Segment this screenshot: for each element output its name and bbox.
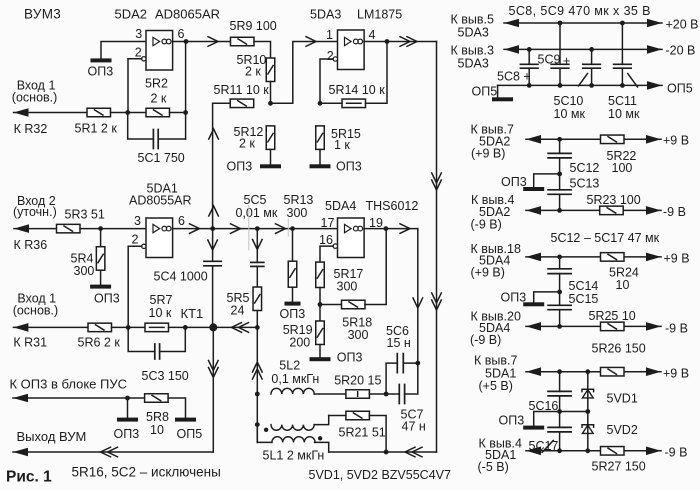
- ground ОП3 on К ОП3 wire: [117, 418, 138, 422]
- junction 5DA4 output node: [384, 226, 389, 231]
- svg-text:ОП3: ОП3: [501, 175, 527, 189]
- arrow right -9 rail 5DA1: [646, 447, 661, 456]
- wire 5DA1 pin2 to feedback rail: [128, 246, 142, 327]
- signal arrow before 5R13 node: [276, 224, 286, 234]
- resistor 5R9: [231, 37, 255, 46]
- ground ОП3 mid 5DA2 block: [523, 187, 544, 191]
- junction 5R5 bottom node: [255, 325, 260, 330]
- svg-text:2: 2: [327, 49, 334, 63]
- junction zener mid node: [585, 409, 590, 414]
- arrow right -20 rail: [647, 45, 662, 54]
- resistor 5R21: [346, 411, 370, 420]
- wire Выход ВУМ: [13, 451, 213, 453]
- svg-text:5C8, 5C9 470 мк x 35 В: 5C8, 5C9 470 мк x 35 В: [509, 4, 651, 18]
- wire 5DA3 output down rail: [436, 42, 438, 453]
- ground OP3 at 5DA2 pin 3: [91, 58, 112, 62]
- svg-text:10 мк: 10 мк: [608, 107, 640, 121]
- wire 5R20 to 5C7: [369, 393, 399, 395]
- arrow to R36: [14, 224, 29, 233]
- svg-text:(-5 В): (-5 В): [478, 460, 509, 474]
- wire 5C12 to mid node: [559, 158, 561, 190]
- junction 5C6 right node: [415, 361, 420, 366]
- svg-text:10 мк: 10 мк: [554, 107, 586, 121]
- wire 5R7 to КТ1: [169, 326, 214, 328]
- wire 5C9 branch: [559, 23, 561, 64]
- resistor 5R24: [601, 253, 625, 262]
- junction 5C9 bottom: [558, 83, 563, 88]
- wire feedback node to 5R14: [320, 102, 342, 104]
- arrow left +9 rail 5DA2: [526, 135, 541, 144]
- junction mid node 5C12-5C13: [557, 172, 562, 177]
- junction 5C17 bottom: [557, 448, 562, 453]
- svg-text:4: 4: [369, 28, 376, 42]
- svg-text:5L2: 5L2: [279, 359, 300, 373]
- svg-text:-9 В: -9 В: [665, 322, 688, 336]
- svg-text:-9 В: -9 В: [663, 205, 686, 219]
- ground ОП3 below 5R13: [285, 302, 301, 306]
- faint scan line near 5C5: [248, 206, 250, 250]
- svg-text:3: 3: [135, 27, 142, 41]
- wire 5R18 to output riser: [365, 229, 386, 305]
- signal arrow after 5DA2 output: [208, 37, 218, 47]
- svg-text:+9 В: +9 В: [663, 367, 689, 381]
- ground ОП3 mid 5DA4 block: [523, 302, 544, 306]
- arrow left -20 rail: [504, 45, 519, 54]
- wire 5C12 branch: [559, 139, 561, 153]
- wire 5R14 to output riser: [366, 42, 388, 104]
- double arrow left on bottom rail: [405, 447, 422, 457]
- wire 5R17 to fb node: [319, 288, 321, 305]
- svg-text:300: 300: [348, 328, 369, 342]
- double arrow on Выход wire: [101, 447, 118, 457]
- resistor 5R2: [146, 108, 170, 117]
- svg-text:ОП3: ОП3: [227, 160, 253, 174]
- svg-text:-20 В: -20 В: [666, 44, 696, 58]
- wire input1b to 5R6: [13, 326, 88, 328]
- svg-text:К R32: К R32: [14, 122, 48, 136]
- svg-text:5VD2: 5VD2: [607, 423, 638, 437]
- svg-text:5DA3: 5DA3: [458, 57, 489, 71]
- svg-text:2 к: 2 к: [151, 92, 167, 106]
- wire 5C5 stem: [256, 229, 258, 263]
- polarity dot 5L1 lower: [318, 436, 322, 440]
- faint scan line near 5R13: [287, 219, 289, 236]
- arrow left +20 rail: [504, 19, 519, 28]
- resistor 5R11: [230, 99, 254, 108]
- svg-text:300: 300: [287, 206, 308, 220]
- wire 5R6 to fb node: [112, 326, 146, 328]
- resistor 5R14: [342, 99, 366, 108]
- svg-text:THS6012: THS6012: [366, 199, 419, 213]
- wire -9 rail 5DA1: [526, 450, 661, 452]
- junction 5C8 bottom: [527, 83, 532, 88]
- capacitor 5C6: [397, 354, 403, 373]
- wire 5C14 to mid node: [559, 274, 561, 306]
- node КТ1: [209, 323, 217, 331]
- capacitor 5C17: [548, 427, 571, 432]
- wire +9 rail 5DA4: [526, 256, 661, 258]
- resistor 5R15: [316, 126, 325, 149]
- arrow right +20 rail: [647, 19, 662, 28]
- svg-text:1 к: 1 к: [334, 138, 350, 152]
- svg-text:5DA3: 5DA3: [458, 26, 489, 40]
- svg-text:5R3 51: 5R3 51: [65, 208, 105, 222]
- svg-text:5C12 – 5C17 47 мк: 5C12 – 5C17 47 мк: [551, 231, 660, 245]
- junction node B: [268, 101, 273, 106]
- svg-text:10 к: 10 к: [149, 306, 172, 320]
- svg-text:5R14 10 к: 5R14 10 к: [329, 83, 386, 97]
- wire 5R11 left to feedback rail: [213, 103, 231, 228]
- junction 5L1a left node: [255, 422, 260, 427]
- wire 5R5 to КТ1 row: [256, 311, 258, 328]
- wire 5DA2 pin2 to feedback node: [128, 59, 142, 113]
- wire 5DA4 output down rail: [417, 229, 419, 364]
- svg-text:5R7: 5R7: [150, 293, 173, 307]
- junction 5C10 bottom: [589, 83, 594, 88]
- svg-text:6: 6: [178, 27, 185, 41]
- resistor 5R6: [88, 323, 112, 332]
- junction mid node 5C14-5C15: [557, 290, 562, 295]
- signal arrow into 5DA3 pin1: [306, 37, 316, 47]
- resistor 5R13: [288, 261, 297, 287]
- resistor 5R12: [266, 126, 275, 149]
- op-amp 5DA2 AD8065AR: [142, 31, 173, 71]
- arrow down below 5DA1 output node: [208, 240, 218, 250]
- junction 5DA4 feedback node: [318, 302, 323, 307]
- junction 5VD2 bottom: [585, 448, 590, 453]
- arrow up above 5DA1 output node: [209, 206, 219, 216]
- wire mid node to ОП3 (5DA1 block): [534, 412, 560, 426]
- wire 5R21 left lead: [329, 415, 346, 417]
- wire +9 rail 5DA1: [526, 371, 661, 373]
- wire -9 rail 5DA4: [526, 325, 661, 327]
- wire 5DA4 pin16 to 5R17: [320, 246, 333, 262]
- wire input 2 to 5R3: [14, 228, 57, 230]
- svg-text:5DA3: 5DA3: [310, 8, 341, 22]
- resistor 5R27: [601, 447, 625, 456]
- svg-text:К выв.5: К выв.5: [451, 13, 494, 27]
- wire mid node to ОП3 (5DA2 block): [534, 174, 560, 187]
- capacitor 5C9: [551, 64, 569, 68]
- junction 5R2 right node: [183, 110, 188, 115]
- svg-text:AD8055AR: AD8055AR: [129, 194, 192, 208]
- svg-text:К R31: К R31: [13, 335, 47, 349]
- junction -9 rail 5DA2 node: [557, 208, 562, 213]
- double arrow down on КТ1 rail: [209, 361, 219, 378]
- svg-text:5C9: 5C9: [538, 53, 561, 67]
- wire 5R8 to ОП5: [168, 398, 185, 418]
- wire 5DA1 output: [173, 228, 338, 230]
- svg-text:5C14: 5C14: [569, 279, 599, 293]
- junction 5C16 top: [557, 369, 562, 374]
- op-amp 5DA1 AD8055AR: [142, 218, 173, 258]
- svg-text:24: 24: [231, 304, 245, 318]
- junction 5C14 top: [557, 255, 562, 260]
- wire mid node to ОП3 (5DA4 block): [534, 292, 560, 302]
- svg-text:5R11 10 к: 5R11 10 к: [214, 83, 270, 97]
- wire 5R2 to output riser: [170, 112, 186, 114]
- wire 5C16 to mid node: [559, 396, 561, 428]
- wire 5L1b left: [257, 425, 272, 443]
- svg-text:Рис. 1: Рис. 1: [6, 469, 52, 486]
- svg-text:(уточн.): (уточн.): [13, 205, 57, 219]
- svg-text:47 н: 47 н: [402, 420, 426, 434]
- resistor 5R26: [601, 367, 625, 376]
- wire 5DA2 output: [173, 41, 231, 43]
- arrow right +9 rail 5DA1: [646, 367, 661, 376]
- svg-text:6: 6: [178, 214, 185, 228]
- capacitor 5C11: [614, 64, 632, 68]
- svg-text:(+9 В): (+9 В): [471, 266, 505, 280]
- wire 5DA4 rail to 5C7: [405, 363, 418, 394]
- arrow right ОП5 rail: [647, 81, 662, 90]
- ground ОП3 below 5R4: [90, 285, 111, 289]
- resistor 5R17: [316, 262, 325, 287]
- arrow left -9 rail 5DA1: [526, 447, 541, 456]
- wire node B to 5DA3 input riser: [271, 42, 338, 104]
- junction 5C12 top: [557, 137, 562, 142]
- wire 5C11 to ОП5: [621, 68, 623, 85]
- capacitor 5C4: [204, 261, 221, 266]
- junction 5DA3 output node: [385, 39, 390, 44]
- svg-text:+9 В: +9 В: [663, 134, 689, 148]
- zener diode 5VD2: [582, 425, 594, 434]
- junction 5DA1 inverting node: [126, 325, 131, 330]
- wire fb node to 5R18: [320, 304, 342, 306]
- wire 5R9 to 5R10 corner: [254, 42, 271, 59]
- svg-text:(-9 В): (-9 В): [471, 218, 502, 232]
- svg-text:5R9 100: 5R9 100: [230, 19, 277, 33]
- junction -9 rail 5DA4 node: [557, 324, 562, 329]
- resistor 5R3: [57, 224, 81, 233]
- signal arrow up on feedback rail: [209, 129, 219, 139]
- capacitor 5C7: [399, 385, 404, 404]
- capacitor 5C1: [153, 130, 158, 149]
- svg-text:5L1 2 мкГн: 5L1 2 мкГн: [263, 449, 325, 463]
- svg-text:5R25 10: 5R25 10: [589, 309, 636, 323]
- junction 5DA2 output node: [184, 39, 189, 44]
- wire 5C16 branch: [559, 372, 561, 392]
- resistor 5R18: [342, 300, 366, 309]
- wire 5R19 to ground: [319, 345, 321, 358]
- double arrow down on 5DA3 rail lower: [432, 293, 442, 310]
- wire 5C3 right branch: [160, 327, 186, 351]
- svg-text:К R36: К R36: [14, 238, 48, 252]
- svg-text:(основ.): (основ.): [12, 91, 58, 105]
- zener diode 5VD1: [582, 389, 594, 398]
- wire 5R15 to ground: [319, 149, 321, 164]
- capacitor 5C16: [548, 391, 571, 396]
- junction inverting node 5DA2: [125, 110, 130, 115]
- arrow right +9 rail 5DA2: [646, 135, 661, 144]
- svg-text:16: 16: [319, 233, 333, 247]
- wire 5C8 branch: [528, 49, 530, 64]
- arrow К ОП3: [13, 394, 28, 403]
- capacitor 5C14: [548, 269, 571, 274]
- wire КТ1 rail down: [212, 327, 214, 452]
- capacitor 5C13: [548, 190, 571, 195]
- capacitor 5C8: [520, 64, 538, 68]
- wire +20 rail: [504, 22, 662, 24]
- wire 5DA4 output: [364, 228, 418, 230]
- wire 5DA3 output: [364, 41, 436, 43]
- svg-text:5C3 150: 5C3 150: [142, 369, 189, 383]
- wire 5C14 branch: [559, 257, 561, 269]
- resistor 5R5: [253, 287, 261, 311]
- wire 5C13 to -9 rail: [559, 194, 561, 210]
- svg-text:AD8065AR: AD8065AR: [155, 7, 220, 22]
- junction 5R20 output node: [384, 392, 389, 397]
- wire 5R21 right to bottom rail: [369, 416, 386, 453]
- junction mid node 5C16-5C17: [557, 409, 562, 414]
- ground ОП5 near 5R8: [175, 418, 196, 422]
- svg-text:(основ.): (основ.): [13, 304, 59, 318]
- svg-text:17: 17: [321, 216, 335, 230]
- wire 5R10 to node B: [270, 82, 272, 104]
- wire -20 rail: [504, 48, 662, 50]
- wire 5R1 to inverting node: [111, 112, 147, 114]
- junction 5C8 top: [527, 47, 532, 52]
- wire 5C17 to -9 rail: [559, 432, 561, 451]
- wire 5C6 left branch: [386, 363, 397, 394]
- wire rail 5DA1-output down: [212, 229, 214, 262]
- wire 5C10 branch: [591, 49, 593, 64]
- svg-text:(+9 В): (+9 В): [471, 147, 505, 161]
- junction 5C9 top: [558, 21, 563, 26]
- svg-text:5C13: 5C13: [570, 177, 600, 191]
- svg-text:300: 300: [74, 264, 95, 278]
- resistor 5R4: [96, 247, 105, 271]
- svg-text:ОП3: ОП3: [88, 65, 114, 79]
- wire 5R3 to 5DA1 pin3: [80, 228, 146, 230]
- wire -9 rail 5DA2: [526, 209, 661, 211]
- wire 5C1 bottom rail right: [158, 138, 185, 140]
- svg-text:К выв.3: К выв.3: [451, 44, 494, 58]
- svg-text:КТ1: КТ1: [181, 306, 204, 321]
- arrow to R32: [14, 108, 29, 117]
- wire input 1 to 5R1: [14, 112, 88, 114]
- wire bottom rail: [329, 451, 437, 453]
- svg-text:5R1 2 к: 5R1 2 к: [75, 122, 118, 136]
- op-amp 5DA3 LM1875: [333, 30, 364, 70]
- svg-text:5R26 150: 5R26 150: [592, 342, 646, 356]
- svg-text:К выв.7: К выв.7: [474, 354, 517, 368]
- junction 5DA1 output on КТ rail: [210, 226, 215, 231]
- wire output riser of 5DA2: [185, 42, 187, 140]
- junction 5R4 node: [98, 226, 103, 231]
- svg-text:5VD1, 5VD2 BZV55C4V7: 5VD1, 5VD2 BZV55C4V7: [309, 468, 451, 482]
- resistor 5R19: [316, 321, 325, 345]
- svg-text:ОП3: ОП3: [94, 292, 120, 306]
- resistor 5R10: [266, 58, 275, 82]
- arrow right +9 rail 5DA4: [646, 253, 661, 262]
- svg-text:5R23 100: 5R23 100: [587, 193, 641, 207]
- svg-text:200: 200: [289, 335, 310, 349]
- svg-text:ВУМ3: ВУМ3: [24, 7, 61, 22]
- inductor 5L2: [271, 388, 314, 394]
- svg-text:2 к: 2 к: [239, 137, 255, 151]
- wire 5C9 to ОП5: [559, 68, 561, 85]
- resistor 5R25: [601, 322, 625, 331]
- capacitor 5C10: [583, 64, 601, 68]
- svg-text:-9 В: -9 В: [665, 446, 688, 460]
- svg-text:+: +: [563, 54, 570, 68]
- svg-text:ОП3: ОП3: [336, 160, 362, 174]
- svg-text:5C10: 5C10: [554, 94, 584, 108]
- arrow left +9 rail 5DA4: [526, 253, 541, 262]
- svg-text:5R21 51: 5R21 51: [339, 426, 386, 440]
- double arrow down on 5DA3 rail upper: [432, 173, 442, 190]
- wire КТ1 to 5R5 node: [213, 326, 257, 328]
- junction 5R7 right node: [183, 325, 188, 330]
- svg-text:5DA4: 5DA4: [325, 199, 356, 213]
- svg-text:5R8: 5R8: [146, 410, 169, 424]
- svg-text:ОП3: ОП3: [280, 307, 306, 321]
- wire К ОП3 row: [13, 397, 145, 399]
- svg-text:15 н: 15 н: [387, 336, 411, 350]
- resistor 5R20: [346, 390, 370, 399]
- svg-text:ОП3: ОП3: [114, 427, 140, 441]
- resistor 5R22: [601, 135, 625, 144]
- wire 5R12 to ground: [270, 149, 272, 164]
- resistor 5R23: [600, 206, 624, 215]
- junction bottom rail node: [384, 450, 389, 455]
- wire 5R5-node rail down: [256, 327, 258, 442]
- svg-text:100: 100: [612, 161, 633, 175]
- svg-text:2: 2: [132, 233, 139, 247]
- svg-text:5R16, 5C2 – исключены: 5R16, 5C2 – исключены: [72, 465, 221, 480]
- pointer line to 5C17: [542, 440, 553, 452]
- junction ОП3 stem node: [125, 396, 130, 401]
- svg-text:ОП5: ОП5: [177, 427, 203, 441]
- wire 5R4 to ground: [100, 270, 102, 284]
- wire 5C6 right branch: [403, 362, 418, 364]
- wire 5R19 stem: [319, 305, 321, 322]
- wire zener chain: [587, 372, 589, 451]
- arrow Выход ВУМ: [13, 448, 28, 457]
- wire ОП3 stem (К ОП3): [127, 398, 129, 418]
- arrow right -9 rail 5DA2: [646, 206, 661, 215]
- svg-text:5C8 +: 5C8 +: [497, 70, 531, 84]
- svg-text:0,01 мк: 0,01 мк: [236, 206, 278, 220]
- wire 5L1b right to bottom rail: [315, 442, 329, 452]
- inductor 5L1 lower winding: [272, 437, 315, 443]
- svg-text:5R20 15: 5R20 15: [334, 374, 381, 388]
- svg-text:ОП3: ОП3: [337, 350, 363, 364]
- resistor 5R1: [87, 108, 111, 117]
- ground ОП5 symbol: [492, 97, 513, 101]
- wire 5DA3 pin2 to feedback node: [320, 59, 333, 103]
- junction 5C11 top: [620, 21, 625, 26]
- signal arrow before 5C5 node: [231, 224, 241, 234]
- double arrow left of 5R5 node: [232, 323, 249, 333]
- signal arrow after 5DA4: [400, 224, 410, 234]
- junction 5R13 node: [290, 226, 295, 231]
- polarity dot 5L1 upper: [264, 428, 268, 432]
- wire 5L1a right to 5R21 riser: [314, 416, 329, 425]
- capacitor 5C3: [155, 344, 160, 359]
- svg-text:10: 10: [616, 278, 630, 292]
- junction 5C11 bottom: [620, 83, 625, 88]
- op-amp 5DA4 THS6012: [333, 218, 364, 258]
- junction 5DA3 feedback node: [318, 101, 323, 106]
- svg-text:5C4 1000: 5C4 1000: [154, 270, 208, 284]
- svg-text:3: 3: [134, 214, 141, 228]
- pointer line to 5C11: [628, 74, 638, 87]
- wire 5C10 to ОП5: [591, 68, 593, 85]
- wire 5C4 to КТ1: [212, 266, 214, 328]
- svg-text:5C1 750: 5C1 750: [138, 151, 185, 165]
